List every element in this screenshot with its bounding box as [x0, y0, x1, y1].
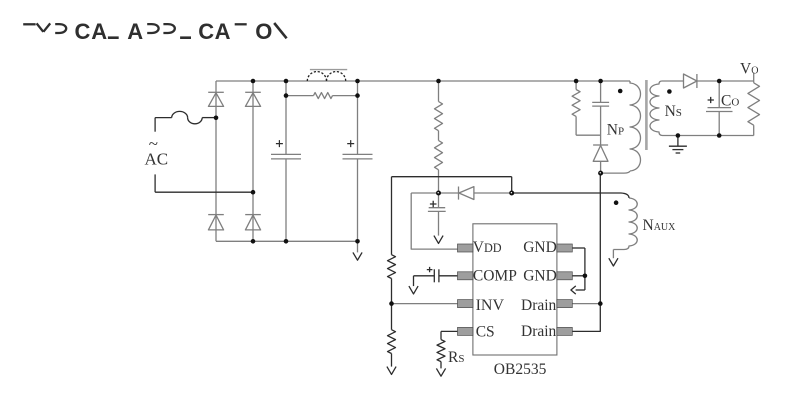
svg-text:C: C [198, 19, 214, 44]
svg-text:A: A [127, 19, 143, 44]
svg-text:GND: GND [523, 268, 557, 285]
svg-text:Drain: Drain [521, 297, 557, 314]
svg-text:CS: CS [476, 323, 495, 340]
svg-text:C: C [75, 19, 91, 44]
svg-text:VDD: VDD [473, 239, 502, 256]
svg-text:GND: GND [523, 239, 557, 256]
svg-text:INV: INV [476, 297, 505, 314]
svg-text:O: O [255, 19, 272, 44]
svg-text:A: A [215, 19, 231, 44]
svg-text:Drain: Drain [521, 323, 557, 340]
svg-text:A: A [91, 19, 107, 44]
svg-text:~: ~ [149, 134, 158, 153]
svg-text:COMP: COMP [473, 268, 517, 285]
svg-text:OB2535: OB2535 [494, 361, 547, 378]
